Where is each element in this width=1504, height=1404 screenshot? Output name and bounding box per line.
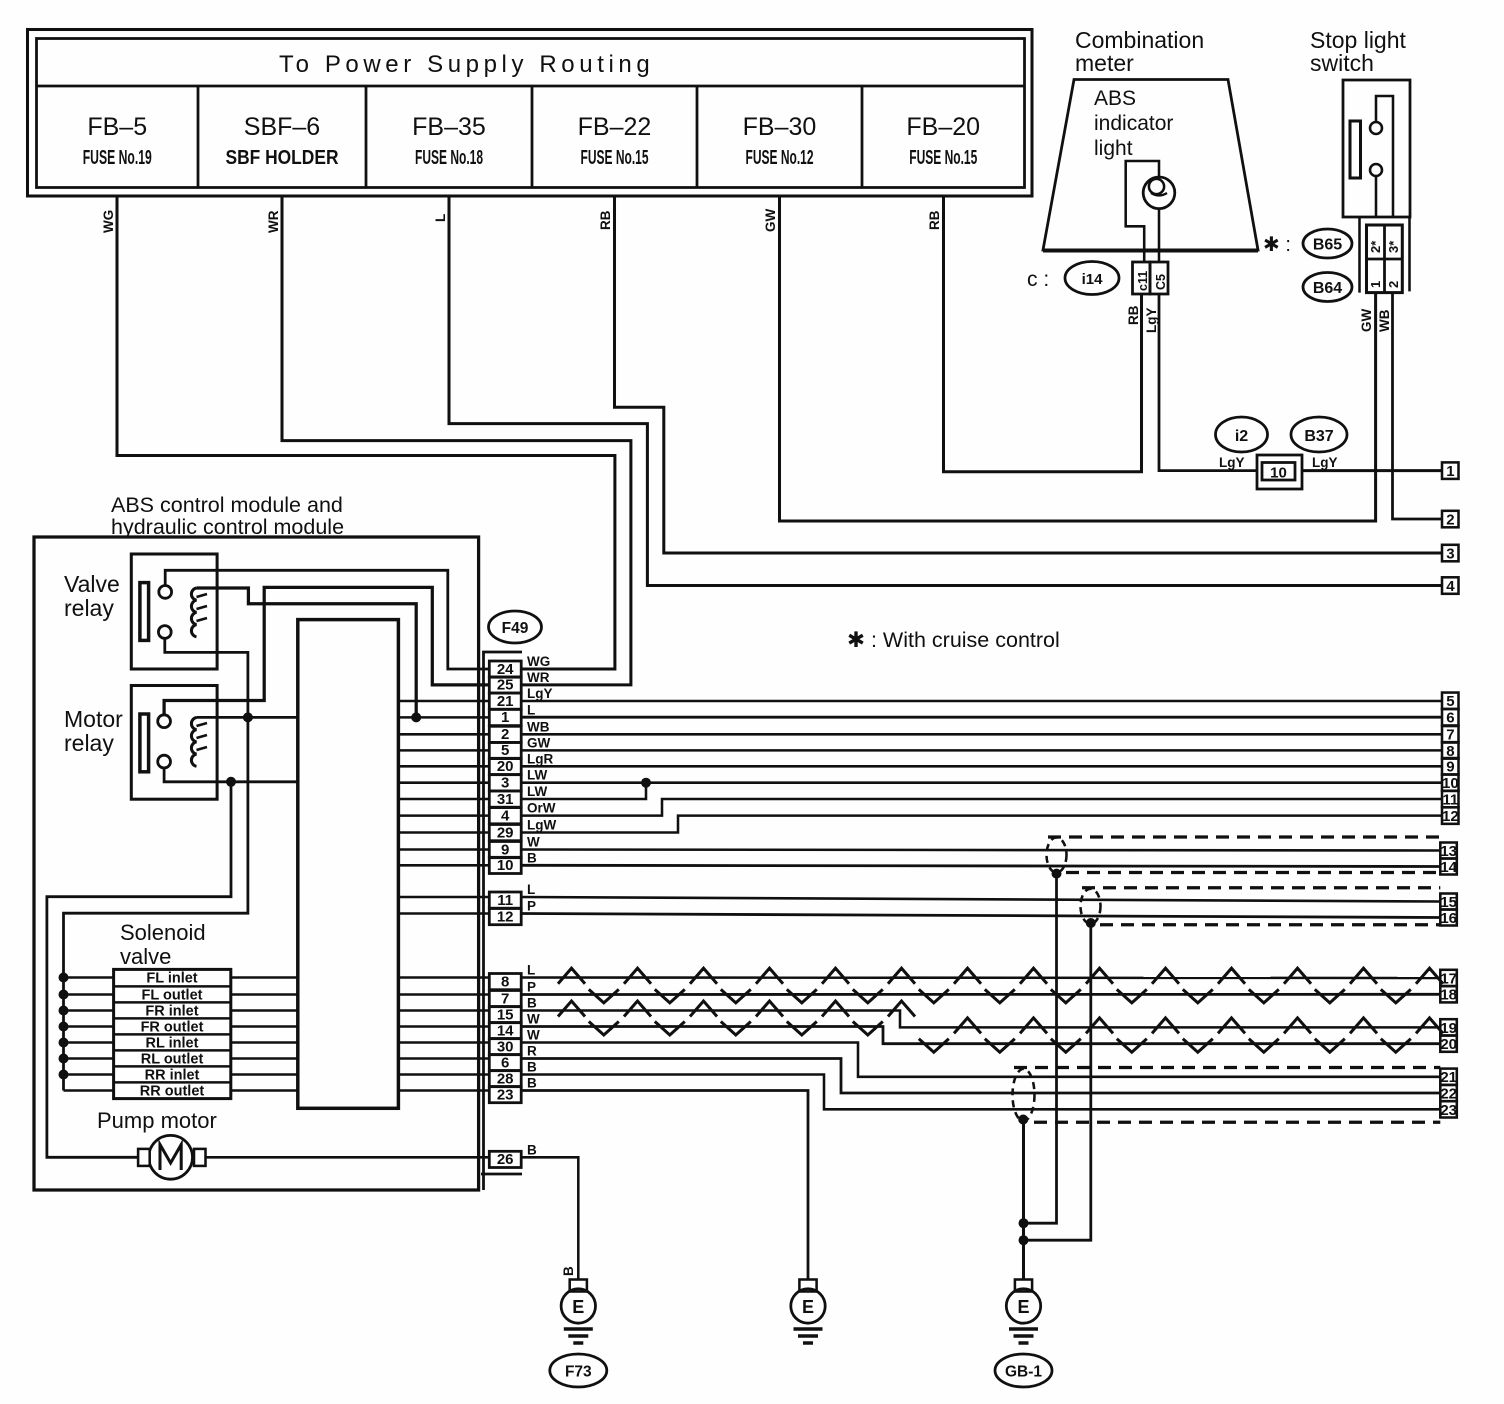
- svg-text:RR inlet: RR inlet: [145, 1068, 200, 1084]
- svg-text:L: L: [433, 214, 448, 222]
- svg-text:18: 18: [1440, 987, 1457, 1004]
- ground GB-1: [995, 1280, 1052, 1388]
- wire W pin9 to terminal 13: [521, 850, 1440, 851]
- svg-text:11: 11: [1442, 791, 1458, 808]
- svg-text:RB: RB: [927, 210, 942, 230]
- svg-text:c11: c11: [1136, 271, 1150, 291]
- svg-text:LgY: LgY: [527, 686, 553, 701]
- terminal 4: [1442, 577, 1459, 594]
- svg-text:SBF HOLDER: SBF HOLDER: [226, 147, 339, 169]
- svg-text:B: B: [527, 1142, 537, 1157]
- wire P pin12 to terminal 16: [521, 914, 1440, 918]
- svg-text:31: 31: [497, 791, 514, 808]
- wire LgW pin29 to terminal 12: [521, 816, 1442, 833]
- svg-text:2: 2: [1386, 281, 1401, 288]
- ground E (module): [791, 1280, 825, 1344]
- svg-text:17: 17: [1440, 970, 1457, 987]
- svg-text:3: 3: [501, 775, 509, 792]
- svg-text:indicator: indicator: [1094, 112, 1173, 135]
- wire WB pin2 to terminal 7: [521, 733, 1442, 736]
- svg-text:WR: WR: [527, 670, 550, 685]
- svg-text:23: 23: [1440, 1102, 1457, 1119]
- svg-text:LW: LW: [527, 768, 548, 783]
- wire W pin30 to terminal 21: [521, 1043, 1440, 1077]
- svg-text:22: 22: [1440, 1085, 1457, 1102]
- svg-text:9: 9: [501, 841, 509, 858]
- svg-text:GW: GW: [763, 208, 778, 232]
- wire R pin6 to terminal 22: [521, 1059, 1440, 1094]
- wire B pin10 to terminal 14: [521, 865, 1440, 866]
- svg-text:E: E: [1017, 1297, 1029, 1317]
- connector c11: [1133, 262, 1151, 294]
- svg-text:B: B: [527, 1060, 537, 1075]
- terminals 15-16 (shielded): [1440, 894, 1457, 927]
- svg-text:L: L: [527, 882, 535, 897]
- svg-text:5: 5: [501, 742, 509, 759]
- svg-text:10: 10: [497, 857, 514, 874]
- svg-text:light: light: [1094, 137, 1133, 160]
- shield drain wire to GB-1: [1024, 874, 1057, 1224]
- hydraulic/ABS control block: [298, 620, 399, 1109]
- svg-text:FB–5: FB–5: [87, 113, 147, 141]
- svg-text:RB: RB: [598, 210, 613, 230]
- svg-text:Valve: Valve: [64, 571, 120, 597]
- wire B: pin 26 to ground F73: [521, 1157, 578, 1280]
- combination meter: [1043, 27, 1258, 251]
- shield drain wire to GB-1 ground: [1019, 1120, 1029, 1281]
- svg-text:B: B: [527, 996, 537, 1011]
- svg-text:2*: 2*: [1368, 240, 1383, 253]
- wire: lamp to c11 (inside meter): [1126, 161, 1159, 262]
- wire WR: fuse SBF-6 to F49 pin 25: [266, 196, 631, 685]
- svg-text:23: 23: [497, 1086, 514, 1103]
- F49 wire colour labels: [527, 654, 556, 1157]
- svg-text:1: 1: [501, 709, 509, 726]
- wire: valve relay coil to pin1 net (dot): [197, 588, 422, 722]
- svg-text:10: 10: [1270, 465, 1287, 482]
- svg-text:B37: B37: [1304, 428, 1333, 445]
- wire GW pin5 to terminal 8: [521, 749, 1442, 752]
- svg-text:7: 7: [501, 990, 509, 1007]
- svg-text:R: R: [527, 1044, 537, 1059]
- svg-text:✱ : With cruise control: ✱ : With cruise control: [847, 628, 1060, 652]
- wire: lamp to C5 (inside meter): [1158, 209, 1161, 262]
- svg-text:E: E: [572, 1297, 584, 1317]
- motor relay: [64, 686, 217, 800]
- svg-text:WR: WR: [266, 210, 281, 233]
- svg-text:FUSE No.18: FUSE No.18: [415, 147, 483, 169]
- svg-text:RL inlet: RL inlet: [146, 1036, 199, 1052]
- svg-text:16: 16: [1440, 910, 1457, 927]
- twisted pair marks terminals 17/18: [558, 968, 1443, 1003]
- svg-text:meter: meter: [1075, 50, 1134, 76]
- svg-text:switch: switch: [1310, 50, 1374, 76]
- svg-text:P: P: [527, 899, 536, 914]
- svg-text:Pump motor: Pump motor: [97, 1108, 217, 1133]
- terminal 1: [1442, 462, 1459, 479]
- connector oval i2: [1216, 417, 1268, 452]
- svg-text:4: 4: [1446, 578, 1455, 595]
- svg-text:LgR: LgR: [527, 751, 553, 766]
- connector oval F49: [489, 611, 542, 643]
- ground F73: [550, 1280, 607, 1388]
- wire L pin11 to terminal 15: [521, 897, 1440, 902]
- pump motor M: [97, 1108, 217, 1179]
- svg-text:29: 29: [497, 824, 514, 841]
- shield around terminals 15/16: [1081, 888, 1441, 928]
- svg-text:4: 4: [501, 807, 510, 824]
- wire W pin14 to terminal 20: [521, 1027, 1440, 1044]
- wire B pin15 to terminal 19: [521, 1011, 1440, 1028]
- wire LgY pin21 to terminal 5: [521, 700, 1442, 703]
- svg-text:2: 2: [501, 726, 509, 743]
- wire: motor relay contact to pin 25 (via WR): [164, 587, 489, 714]
- svg-text:11: 11: [497, 892, 513, 909]
- wire: motor relay coil to block (pin1 net): [197, 716, 298, 719]
- wire: motor relay contact to pump motor: [47, 768, 298, 1157]
- svg-text:1: 1: [1446, 463, 1454, 480]
- svg-text:30: 30: [497, 1038, 514, 1055]
- svg-text:FR inlet: FR inlet: [145, 1004, 198, 1020]
- svg-text:12: 12: [1442, 808, 1459, 825]
- svg-text:1: 1: [1368, 281, 1383, 288]
- svg-text:26: 26: [497, 1151, 514, 1168]
- svg-text:L: L: [527, 963, 535, 978]
- wire GW: fuse FB-30 to stop light switch pin 1: [763, 196, 1376, 521]
- shield drain wire to GB-1: [1024, 923, 1091, 1240]
- svg-text:B: B: [561, 1266, 576, 1276]
- wire L: fuse FB-35 to terminal 4: [433, 196, 1442, 586]
- svg-text:WG: WG: [527, 654, 550, 669]
- svg-text:LgY: LgY: [1219, 455, 1245, 470]
- wire RB: fuse FB-22 to terminal 3: [598, 196, 1442, 553]
- svg-text:3*: 3*: [1386, 240, 1401, 253]
- svg-text:✱ :: ✱ :: [1263, 234, 1291, 256]
- svg-text:LW: LW: [527, 784, 548, 799]
- svg-text:28: 28: [497, 1070, 514, 1087]
- svg-text:3: 3: [1446, 545, 1454, 562]
- shield around terminals 21/22/23: [1013, 1068, 1441, 1125]
- svg-text:21: 21: [497, 693, 514, 710]
- svg-text:LgY: LgY: [1312, 455, 1338, 470]
- svg-text:FB–30: FB–30: [743, 113, 817, 141]
- svg-text:c :: c :: [1027, 268, 1049, 291]
- wire P pin7 to terminal 18: [521, 993, 1440, 996]
- svg-text:ABS control module and: ABS control module and: [111, 493, 343, 517]
- svg-text:24: 24: [497, 661, 514, 678]
- stop light switch connector (pins 1,2,2*,3*): [1360, 217, 1410, 293]
- svg-text:FUSE No.15: FUSE No.15: [581, 147, 649, 169]
- svg-text:F73: F73: [565, 1364, 592, 1381]
- svg-text:LgW: LgW: [527, 818, 556, 833]
- svg-text:B: B: [527, 850, 537, 865]
- terminals 5-12: [1442, 693, 1459, 825]
- svg-text:ABS: ABS: [1094, 87, 1136, 110]
- wire LgR pin20 to terminal 9: [521, 765, 1442, 768]
- svg-text:FUSE No.15: FUSE No.15: [909, 147, 977, 169]
- wire OrW pin4 to terminal 11: [521, 799, 1442, 816]
- svg-text:B: B: [527, 1076, 537, 1091]
- terminals 13-14 (shielded): [1440, 843, 1457, 876]
- svg-text:RL outlet: RL outlet: [141, 1052, 204, 1068]
- svg-text:B65: B65: [1313, 237, 1342, 254]
- wire RB: fuse FB-20 to combination meter c11: [927, 196, 1142, 472]
- svg-text:relay: relay: [64, 595, 114, 621]
- svg-text:LgY: LgY: [1144, 308, 1159, 334]
- F49 pin boxes: [489, 661, 521, 1168]
- svg-text:6: 6: [501, 1054, 509, 1071]
- wire LW pin3 to terminal 10: [521, 778, 1442, 788]
- svg-text:W: W: [527, 1012, 540, 1027]
- svg-text:WG: WG: [101, 210, 116, 233]
- svg-text:FL inlet: FL inlet: [146, 971, 197, 987]
- svg-text:25: 25: [497, 677, 514, 694]
- svg-text:6: 6: [1446, 710, 1454, 727]
- svg-text:F49: F49: [502, 620, 529, 637]
- svg-text:15: 15: [497, 1006, 514, 1023]
- wire LW pin31 joins pin3: [521, 783, 646, 799]
- svg-text:Solenoid: Solenoid: [120, 920, 206, 945]
- svg-text:RR outlet: RR outlet: [140, 1084, 205, 1100]
- wire L pin1 to terminal 6: [521, 716, 1442, 719]
- svg-text:14: 14: [497, 1022, 514, 1039]
- svg-text:FB–20: FB–20: [906, 113, 980, 141]
- terminals 21-23 (shielded): [1440, 1069, 1457, 1119]
- svg-text:2: 2: [1446, 511, 1454, 528]
- svg-text:FUSE No.19: FUSE No.19: [83, 147, 152, 169]
- wire: pump motor to pin 26: [206, 1156, 490, 1159]
- svg-text:i2: i2: [1235, 428, 1248, 445]
- valve relay: [64, 554, 217, 669]
- shield around terminals 13/14: [1047, 837, 1441, 879]
- svg-text:C5: C5: [1154, 274, 1168, 290]
- svg-text:To Power Supply Routing: To Power Supply Routing: [279, 51, 654, 78]
- wire WB: switch pin 2 to terminal 2: [1377, 293, 1442, 519]
- wire: valve relay contact to solenoid bus: [64, 638, 253, 1090]
- svg-text:FUSE No.12: FUSE No.12: [746, 147, 814, 169]
- svg-text:WB: WB: [1377, 309, 1392, 332]
- wire LgY: 10 box to terminal 1: [1302, 469, 1442, 472]
- connector oval B65: [1303, 229, 1352, 258]
- twisted pair marks terminals 19/20 (after step): [919, 1018, 1443, 1052]
- wire LgY: C5 down to junction: [1144, 294, 1257, 471]
- connector oval i14: [1065, 262, 1119, 295]
- connector strip F49 shell: [481, 652, 522, 1190]
- svg-text:FB–22: FB–22: [578, 113, 652, 141]
- svg-text:21: 21: [1440, 1069, 1457, 1086]
- svg-text:SBF–6: SBF–6: [244, 113, 320, 141]
- stop light switch: [1310, 27, 1410, 217]
- wire WG: fuse FB-5 to F49 pin 24: [101, 196, 615, 669]
- svg-text:FL outlet: FL outlet: [142, 988, 203, 1004]
- terminals 17-18 (twisted pair): [1440, 970, 1457, 1004]
- svg-text:FB–35: FB–35: [412, 113, 486, 141]
- svg-text:WB: WB: [527, 719, 550, 734]
- svg-text:20: 20: [497, 758, 514, 775]
- twisted pair marks terminals 19/20 (before step): [558, 1001, 915, 1035]
- svg-text:valve: valve: [120, 944, 171, 969]
- svg-text:B64: B64: [1313, 280, 1342, 297]
- wires: solenoid valves to bus (left) and block (right): [59, 973, 298, 1091]
- svg-text:FR outlet: FR outlet: [141, 1020, 204, 1036]
- joint connector 10: [1219, 455, 1338, 489]
- svg-text:GB-1: GB-1: [1005, 1364, 1042, 1381]
- svg-text:Motor: Motor: [64, 706, 123, 732]
- lamp: ABS indicator light bulb: [1143, 177, 1175, 209]
- svg-text:12: 12: [497, 908, 514, 925]
- svg-text:W: W: [527, 1028, 540, 1043]
- terminal 2: [1442, 511, 1459, 528]
- wire B pin23 to ground E: [521, 1091, 808, 1281]
- wire: valve relay contact to pin 24: [165, 570, 489, 669]
- svg-text:9: 9: [1446, 759, 1454, 776]
- svg-text:i14: i14: [1082, 271, 1104, 288]
- svg-text:L: L: [527, 702, 535, 717]
- fuse box "To Power Supply Routing": [28, 30, 1033, 197]
- svg-text:P: P: [527, 980, 536, 995]
- connector oval B37: [1291, 417, 1347, 452]
- svg-text:OrW: OrW: [527, 801, 556, 816]
- connector oval B64: [1303, 273, 1352, 302]
- ABS control module outer box: [34, 493, 479, 1190]
- svg-text:GW: GW: [1359, 308, 1374, 332]
- svg-text:W: W: [527, 835, 540, 850]
- svg-text:14: 14: [1440, 859, 1457, 876]
- svg-text:relay: relay: [64, 730, 114, 756]
- connector C5: [1150, 262, 1168, 294]
- svg-text:19: 19: [1440, 1020, 1457, 1037]
- wire B pin28 to terminal 23: [521, 1075, 1440, 1110]
- svg-text:GW: GW: [527, 735, 551, 750]
- solenoid valve assembly: [114, 920, 231, 1100]
- wires: block to F49 pins (left side): [398, 701, 489, 1091]
- svg-text:E: E: [802, 1297, 814, 1317]
- terminal 3: [1442, 545, 1459, 562]
- terminals 19-20 (twisted pair): [1440, 1019, 1457, 1053]
- svg-text:RB: RB: [1126, 305, 1141, 325]
- svg-text:20: 20: [1440, 1036, 1457, 1053]
- svg-text:5: 5: [1446, 693, 1454, 710]
- wire L pin8 to terminal 17: [521, 976, 1440, 979]
- svg-text:8: 8: [501, 973, 509, 990]
